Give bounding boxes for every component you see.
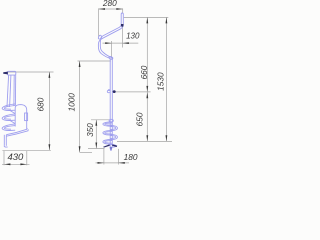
- svg-text:280: 280: [102, 0, 117, 8]
- scoop left tube right line: [5, 135, 7, 146]
- grip bottom cap: [121, 24, 124, 27]
- handle upper diagonal inner: [103, 25, 122, 36]
- crank tube line 1: [7, 75, 9, 106]
- ext line 130 right: [122, 27, 124, 48]
- flight lobe 1: [2, 104, 15, 111]
- svg-text:680: 680: [35, 97, 45, 111]
- scoop left tube left line: [3, 135, 5, 146]
- handle upper diagonal outer: [104, 25, 124, 38]
- drill tip left: [109, 147, 112, 151]
- arrow 680 bottom: [49, 144, 51, 150]
- ext line bottom of 350: [88, 148, 105, 150]
- ext line top of 280 right: [122, 8, 124, 13]
- flight lobe 2: [2, 114, 15, 121]
- arrow 430 left: [4, 163, 10, 165]
- ext line bottom right: [117, 140, 172, 142]
- arrow 350 bottom: [95, 143, 97, 149]
- flight lobe 3 inner: [4, 126, 15, 130]
- svg-text:430: 430: [7, 152, 24, 163]
- scoop diagonal upper: [6, 128, 27, 135]
- dim line 1530: [165, 17, 167, 141]
- handle left vertical inner: [100, 36, 103, 52]
- arrow 350 top: [95, 120, 97, 126]
- grip side rect: [8, 71, 16, 75]
- arrow 280 right: [116, 8, 122, 10]
- dark cap of side grip: [3, 72, 8, 75]
- ext line 130 left: [111, 41, 113, 59]
- ext line top of 1000: [78, 60, 111, 62]
- svg-text:350: 350: [86, 123, 95, 137]
- ext line top of 350: [91, 119, 110, 121]
- ext line mid right: [116, 91, 151, 93]
- dim line 650: [146, 92, 148, 141]
- scoop diagonal lower: [6, 129, 28, 136]
- dim line 350: [95, 120, 97, 149]
- shaft left line: [109, 58, 111, 147]
- crank tube line 2: [10, 75, 11, 107]
- arrow 1530 top: [166, 17, 168, 23]
- arrow 1530 bottom: [166, 135, 168, 141]
- arrow 280 left: [99, 8, 105, 10]
- handle left vertical outer: [98, 38, 103, 54]
- flight back edge 1: [10, 111, 15, 114]
- coil right lobe 3: [110, 144, 116, 147]
- handle elbow to shaft outer: [102, 54, 111, 59]
- flight lobe 3: [2, 124, 15, 131]
- wing bolt left curl: [107, 90, 110, 92]
- arrow 1000 bottom: [79, 146, 81, 152]
- blade left: [103, 144, 110, 147]
- coil left lobe 3: [103, 139, 113, 144]
- wing bolt small curl: [108, 89, 110, 92]
- auger cylinder: [15, 105, 27, 130]
- coil left lobe 2 inner: [105, 132, 112, 135]
- ext line bottom left: [2, 149, 51, 151]
- spiral top knob: [109, 119, 113, 122]
- flight lobe 1 inner: [4, 106, 15, 110]
- arrow 650 bottom: [146, 135, 148, 141]
- coil right lobe 1 inner: [111, 127, 116, 130]
- handle joint swell lower: [109, 56, 114, 60]
- svg-text:1530: 1530: [155, 72, 165, 91]
- coil right lobe 2: [110, 134, 117, 139]
- arrow 130 right (outside): [123, 42, 129, 44]
- arrow 180 right (outside): [118, 162, 124, 164]
- flight lobe 2 inner: [4, 116, 15, 120]
- arrow 430 right: [20, 163, 26, 165]
- crank tube line 4: [14, 75, 16, 105]
- ext line top of 680: [8, 71, 54, 73]
- coil left lobe 3 inner: [105, 141, 112, 144]
- arrow 1000 top: [79, 61, 81, 67]
- side plate: [25, 113, 28, 121]
- crank tube line 3: [13, 75, 15, 105]
- coil left lobe 1: [103, 122, 113, 126]
- dim line 130: [103, 42, 139, 44]
- dim line 180: [96, 162, 130, 164]
- arrow 650 top: [146, 92, 148, 98]
- ext line 180 left: [103, 149, 105, 165]
- wing bolt head: [113, 90, 116, 93]
- svg-text:180: 180: [124, 152, 138, 162]
- dim line 430: [2, 163, 30, 165]
- coil left lobe 2: [103, 130, 113, 135]
- shaft right line: [111, 58, 113, 147]
- svg-text:130: 130: [126, 32, 140, 41]
- ext line bottom of 1000: [80, 151, 92, 153]
- ext line top of 280 left: [98, 8, 100, 37]
- dim line 660: [146, 17, 148, 92]
- grip side cap: [3, 72, 8, 75]
- blade right: [112, 144, 117, 147]
- ext line top right: [124, 16, 169, 18]
- arrow 680 top: [49, 72, 51, 78]
- scoop bottom curl: [4, 146, 8, 147]
- dim line 1000: [79, 61, 81, 152]
- svg-text:660: 660: [139, 65, 149, 79]
- arrow 660 bottom: [146, 86, 148, 92]
- coil right lobe 1: [110, 125, 117, 130]
- dim line 680: [48, 72, 50, 150]
- drill tip right: [110, 147, 113, 151]
- coil left lobe 1 inner: [105, 123, 112, 125]
- ext line 430 left: [3, 151, 5, 165]
- flight back edge 2: [10, 121, 15, 124]
- ext line 180 right: [117, 149, 119, 165]
- arrow 660 top: [146, 17, 148, 23]
- svg-text:1000: 1000: [66, 93, 76, 112]
- dim line 280: [99, 8, 123, 10]
- handle grip right view: [121, 13, 123, 25]
- svg-text:650: 650: [135, 112, 145, 126]
- handle joint swell upper: [98, 35, 102, 40]
- drill tip point: [110, 147, 112, 151]
- handle elbow to shaft inner: [103, 52, 113, 58]
- ext line 430 right: [26, 151, 28, 165]
- coil right lobe 2 inner: [111, 136, 116, 139]
- arrow 130 left (outside): [105, 42, 111, 44]
- arrow 180 left (outside): [98, 162, 104, 164]
